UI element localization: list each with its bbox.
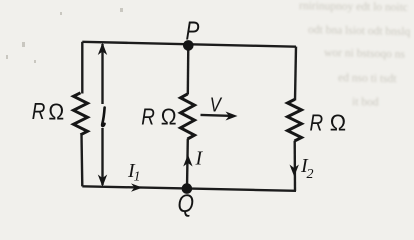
- svg-text:odt bna lsiot odt bnslq: odt bna lsiot odt bnslq: [308, 24, 411, 38]
- svg-text:rnirinupnoy edt lo noitc: rnirinupnoy edt lo noitc: [299, 0, 408, 14]
- faint specks left: [6, 8, 123, 63]
- resistor R3 (right, R ohm): [288, 100, 302, 142]
- double-headed arrow l (between rails): [98, 43, 107, 187]
- wire: right rail lower segment: [294, 141, 297, 191]
- svg-text:Ω: Ω: [48, 99, 64, 125]
- resistor R1 (left, R ohm): [74, 93, 88, 135]
- label I2: [300, 155, 314, 182]
- svg-text:V: V: [210, 93, 223, 116]
- wire: right rail upper segment: [295, 47, 296, 101]
- label R3 value: R ohm: [310, 110, 347, 136]
- arrow: current I2 (down, right rail): [290, 165, 299, 177]
- svg-text:Ω: Ω: [161, 104, 177, 130]
- svg-text:2: 2: [307, 167, 314, 182]
- svg-text:Q: Q: [178, 189, 195, 217]
- wire: bottom rail Q: [82, 186, 296, 191]
- svg-text:it bod: it bod: [352, 96, 379, 109]
- wire: middle branch upper segment: [187, 45, 190, 94]
- svg-text:R: R: [310, 111, 324, 136]
- node P (junction dot): [183, 40, 194, 51]
- wire: middle branch lower segment: [186, 139, 189, 189]
- label R1 value: R ohm: [32, 99, 64, 125]
- faint print bleed-through top-right: [299, 0, 411, 109]
- svg-text:I: I: [195, 148, 204, 170]
- svg-text:R: R: [141, 105, 155, 130]
- node Q (junction dot): [182, 183, 193, 194]
- svg-text:wor ni bstsoqo ns: wor ni bstsoqo ns: [324, 47, 406, 61]
- svg-text:P: P: [186, 16, 200, 45]
- label R2 value: R ohm: [141, 104, 176, 130]
- svg-text:ed nso ti tsdt: ed nso ti tsdt: [338, 72, 398, 85]
- wire: left rail lower segment: [80, 135, 83, 187]
- svg-text:Ω: Ω: [330, 110, 346, 136]
- wire: left rail upper segment: [81, 42, 83, 94]
- arrow: current I (up, middle branch): [183, 155, 192, 167]
- resistor R2 (middle, R ohm): [181, 94, 195, 139]
- arrow V (voltage, to the right of R2): [201, 93, 238, 121]
- wire: top rail P: [82, 42, 296, 47]
- arrow: current I1 (right, on bottom rail): [131, 183, 143, 191]
- svg-text:1: 1: [134, 170, 141, 185]
- label I1: [127, 160, 141, 185]
- label l (on double arrow): [102, 108, 104, 126]
- svg-text:R: R: [32, 99, 46, 124]
